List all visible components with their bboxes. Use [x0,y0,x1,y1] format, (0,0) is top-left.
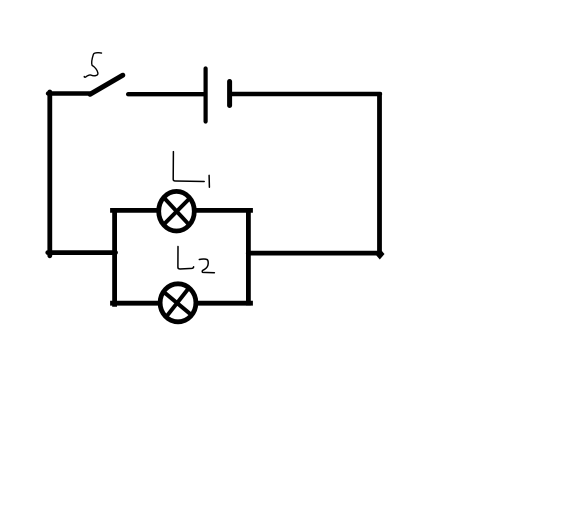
wire battery to top-right corner [232,92,381,96]
label S [84,53,101,78]
wire left vertical [47,92,52,256]
wire right vertical [377,92,382,253]
label L2 [178,247,215,273]
wire middle-left rail [48,250,116,255]
wire top-left horizontal [48,91,91,95]
parallel box bottom rail wire [113,301,251,306]
junction dot [375,249,385,260]
parallel box right vertical wire [246,210,251,303]
lamp L1 [159,191,195,231]
label L1 [173,152,209,188]
battery long plate [204,69,208,122]
parallel box top rail wire [113,208,251,213]
wire middle-right rail [248,251,380,256]
parallel box left vertical wire [112,210,117,304]
battery short plate [227,82,232,106]
switch S blade [90,75,123,94]
lamp L2 [160,284,196,322]
wire switch to battery [128,92,203,96]
